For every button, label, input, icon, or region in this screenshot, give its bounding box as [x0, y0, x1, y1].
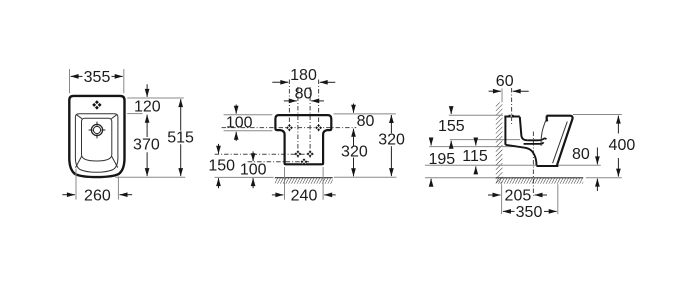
trap top [527, 138, 546, 140]
center line upper holes [222, 127, 357, 129]
svg-text:205: 205 [505, 187, 532, 204]
extension line trap bottom [429, 146, 520, 148]
front inner slant [553, 122, 568, 164]
svg-text:60: 60 [496, 73, 514, 90]
svg-text:350: 350 [516, 204, 543, 221]
rim outer edge [75, 114, 118, 173]
bidet rear view outline [275, 115, 331, 164]
dimension 80 right [354, 104, 375, 136]
floor extension left [425, 177, 496, 179]
svg-text:180: 180 [290, 67, 317, 84]
foot bottom line [536, 165, 558, 167]
dimension 180 [272, 67, 335, 84]
tap hole on deck [509, 115, 514, 117]
extension line bottom [115, 176, 185, 178]
rim corner tick right [111, 114, 117, 118]
extension line top right [573, 114, 622, 116]
deck top line [504, 116, 519, 118]
svg-text:195: 195 [428, 151, 455, 168]
dimension 320 outer [378, 115, 405, 176]
extension line 240 right [322, 167, 324, 200]
faucet crosshair ticks [89, 122, 106, 139]
rim top and front slant [547, 116, 573, 166]
fixing hole lower right [307, 151, 314, 158]
svg-text:100: 100 [226, 115, 253, 132]
dimension 370 [133, 129, 160, 177]
dimension 205 [488, 187, 547, 204]
fixing center line [511, 88, 513, 124]
center line vertical left inner [297, 87, 299, 158]
extension line top left [449, 114, 503, 116]
extension line 355 left [69, 69, 71, 93]
fixing hole lower left [295, 151, 302, 158]
seat front line right [111, 156, 117, 168]
floor surface line [275, 177, 333, 179]
svg-text:150: 150 [208, 158, 235, 175]
bidet top view outline [69, 96, 124, 177]
dimension 100 lower [240, 151, 267, 188]
dimension 80 top [284, 86, 324, 103]
extension line wall face bottom [501, 184, 503, 214]
dimension 260 [62, 188, 132, 205]
outlet hole bottom [301, 158, 308, 165]
floor surface line [496, 177, 583, 179]
rim corner tick left [76, 114, 82, 118]
extension line foot bottom right [559, 164, 601, 166]
center line vertical left outer [288, 80, 290, 132]
svg-text:240: 240 [291, 188, 318, 205]
dimension 60 [489, 73, 529, 91]
fixing hole upper right [315, 124, 322, 131]
svg-text:320: 320 [378, 131, 405, 148]
trap bottom [524, 142, 544, 144]
bowl front inner wall [541, 118, 547, 146]
rim inner edge [82, 118, 112, 161]
fixing hole upper left [286, 124, 293, 131]
extension line rim level [127, 113, 142, 115]
dimension 80 right [572, 146, 597, 191]
dimension 350 [503, 204, 557, 221]
svg-text:100: 100 [240, 161, 267, 178]
extension line front foot bottom [557, 184, 559, 214]
svg-text:155: 155 [438, 118, 465, 135]
dimension 150 [208, 144, 235, 188]
svg-text:80: 80 [295, 86, 313, 103]
svg-text:320: 320 [341, 144, 368, 161]
svg-text:260: 260 [84, 188, 111, 205]
extension line top right [127, 97, 184, 99]
svg-text:80: 80 [357, 113, 375, 130]
svg-text:370: 370 [133, 136, 160, 153]
extension line step left [224, 130, 273, 132]
dimension 355 [71, 69, 123, 86]
floor hatch [275, 178, 333, 184]
dimension 155 [438, 107, 465, 148]
extension line trap top [450, 139, 520, 141]
extension line 240 left [284, 167, 286, 200]
dimension 120 [134, 84, 161, 128]
svg-text:120: 120 [134, 98, 161, 115]
bowl back wall [520, 117, 527, 141]
underside line [505, 145, 536, 165]
center line lower holes [215, 153, 314, 155]
dimension 115 [462, 138, 488, 173]
faucet circle inner [93, 126, 100, 133]
floor extension right [586, 177, 622, 179]
svg-text:80: 80 [572, 146, 590, 163]
center line vertical right inner [309, 87, 311, 158]
extension line foot bottom [425, 164, 537, 166]
extension line 260 right [117, 176, 119, 199]
tap hole diamond [92, 100, 101, 109]
drain center line [532, 132, 534, 196]
center line outlet [248, 161, 310, 163]
extension line body top left [224, 114, 273, 116]
dimension 195 [428, 139, 455, 187]
floor extension left [215, 176, 274, 178]
extension line 355 right [123, 69, 125, 93]
dimension 100 upper [226, 105, 253, 142]
faucet circle outer [91, 124, 102, 135]
svg-text:115: 115 [462, 148, 488, 165]
dimension 400 [609, 116, 636, 177]
seat front line left [76, 156, 82, 168]
svg-text:515: 515 [167, 129, 194, 146]
extension line 260 left [75, 169, 77, 200]
dimension 240 [272, 188, 336, 205]
svg-text:355: 355 [84, 69, 111, 86]
extension line body top right [334, 113, 396, 115]
dimension 320 inner [341, 136, 368, 177]
dimension 515 [167, 99, 194, 176]
floor hatch [496, 178, 583, 184]
bidet back wall line [504, 116, 506, 145]
extension line wall face top [501, 89, 503, 103]
wall and floor hatch [496, 102, 503, 183]
floor extension right [334, 176, 397, 178]
svg-text:400: 400 [609, 137, 636, 154]
center line vertical right outer [318, 80, 320, 132]
